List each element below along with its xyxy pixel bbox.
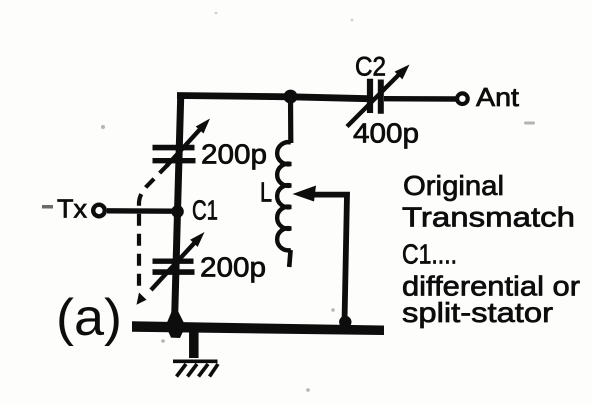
terminal Tx	[93, 205, 105, 217]
capacitor C2 plate 2	[378, 80, 384, 114]
capacitor C2 arrowhead	[395, 65, 410, 80]
wire tap arrow shaft and return	[314, 195, 347, 322]
ground bus bar	[132, 321, 384, 335]
svg-text:Tx: Tx	[57, 194, 87, 224]
capacitor C1 lower plate 1	[153, 259, 194, 264]
wire left vertical branch	[175, 94, 181, 324]
dashed gang link of differential capacitor	[139, 165, 168, 294]
capacitor C2 plate 1	[367, 79, 373, 113]
capacitor C1 upper variable arrow	[167, 126, 204, 166]
svg-text:200p: 200p	[200, 252, 266, 283]
wire Tx lead	[107, 208, 176, 214]
capacitor C2 variable arrow	[347, 73, 401, 127]
svg-text:C1....: C1....	[402, 239, 457, 270]
svg-text:split-stator: split-stator	[402, 297, 553, 328]
node junction top rail / L feed	[284, 90, 298, 104]
inductor bottom stub	[289, 250, 290, 267]
wire ground stub	[189, 330, 199, 358]
wire C2 to Ant	[384, 96, 456, 102]
terminal Ant	[457, 93, 468, 104]
scan speck marks	[42, 12, 535, 392]
inductor L	[277, 142, 291, 250]
inductor tap arrowhead	[293, 186, 317, 202]
capacitor C1 lower variable arrow	[151, 239, 199, 291]
capacitor C1 upper plate 1	[153, 145, 195, 151]
svg-text:L: L	[260, 177, 272, 208]
svg-text:C2: C2	[355, 52, 386, 82]
svg-text:Transmatch: Transmatch	[402, 202, 575, 233]
svg-text:Original: Original	[403, 170, 504, 201]
dashed gang link bottom arrowhead	[137, 293, 147, 305]
svg-text:(a): (a)	[56, 289, 122, 347]
blot below bus under left vertical	[168, 331, 183, 338]
flare left vertical to bus	[167, 312, 184, 323]
node tap to bus junction	[339, 316, 351, 328]
capacitor C1 upper plate 2	[153, 158, 196, 163]
capacitor C1 lower plate 2	[153, 269, 195, 275]
node Tx junction	[171, 205, 184, 218]
wire inductor feed	[288, 94, 293, 143]
svg-text:Ant: Ant	[476, 82, 520, 112]
capacitor C1 lower arrowhead	[190, 232, 204, 247]
svg-text:200p: 200p	[201, 139, 267, 170]
ground symbol	[173, 361, 218, 376]
svg-text:C1: C1	[192, 195, 218, 226]
capacitor C1 upper arrowhead	[196, 119, 210, 134]
wire top rail	[177, 96, 368, 99]
svg-text:400p: 400p	[353, 118, 419, 149]
